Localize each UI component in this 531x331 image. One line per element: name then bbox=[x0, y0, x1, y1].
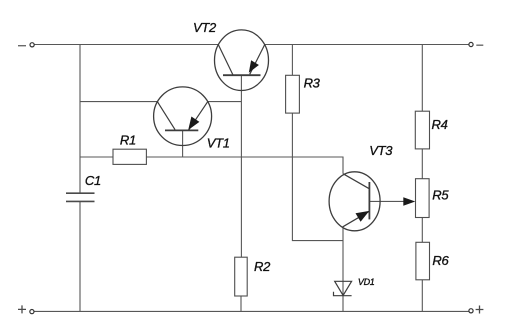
svg-text:C1: C1 bbox=[85, 173, 101, 188]
svg-text:R5: R5 bbox=[432, 187, 449, 202]
svg-text:VD1: VD1 bbox=[358, 277, 375, 287]
svg-text:R6: R6 bbox=[432, 253, 449, 268]
svg-text:R4: R4 bbox=[432, 117, 448, 132]
svg-text:R2: R2 bbox=[254, 259, 271, 274]
svg-text:VT1: VT1 bbox=[207, 136, 230, 151]
svg-text:R1: R1 bbox=[120, 133, 136, 148]
svg-text:R3: R3 bbox=[304, 75, 321, 90]
svg-text:VT2: VT2 bbox=[193, 20, 217, 35]
svg-text:VT3: VT3 bbox=[369, 143, 393, 158]
